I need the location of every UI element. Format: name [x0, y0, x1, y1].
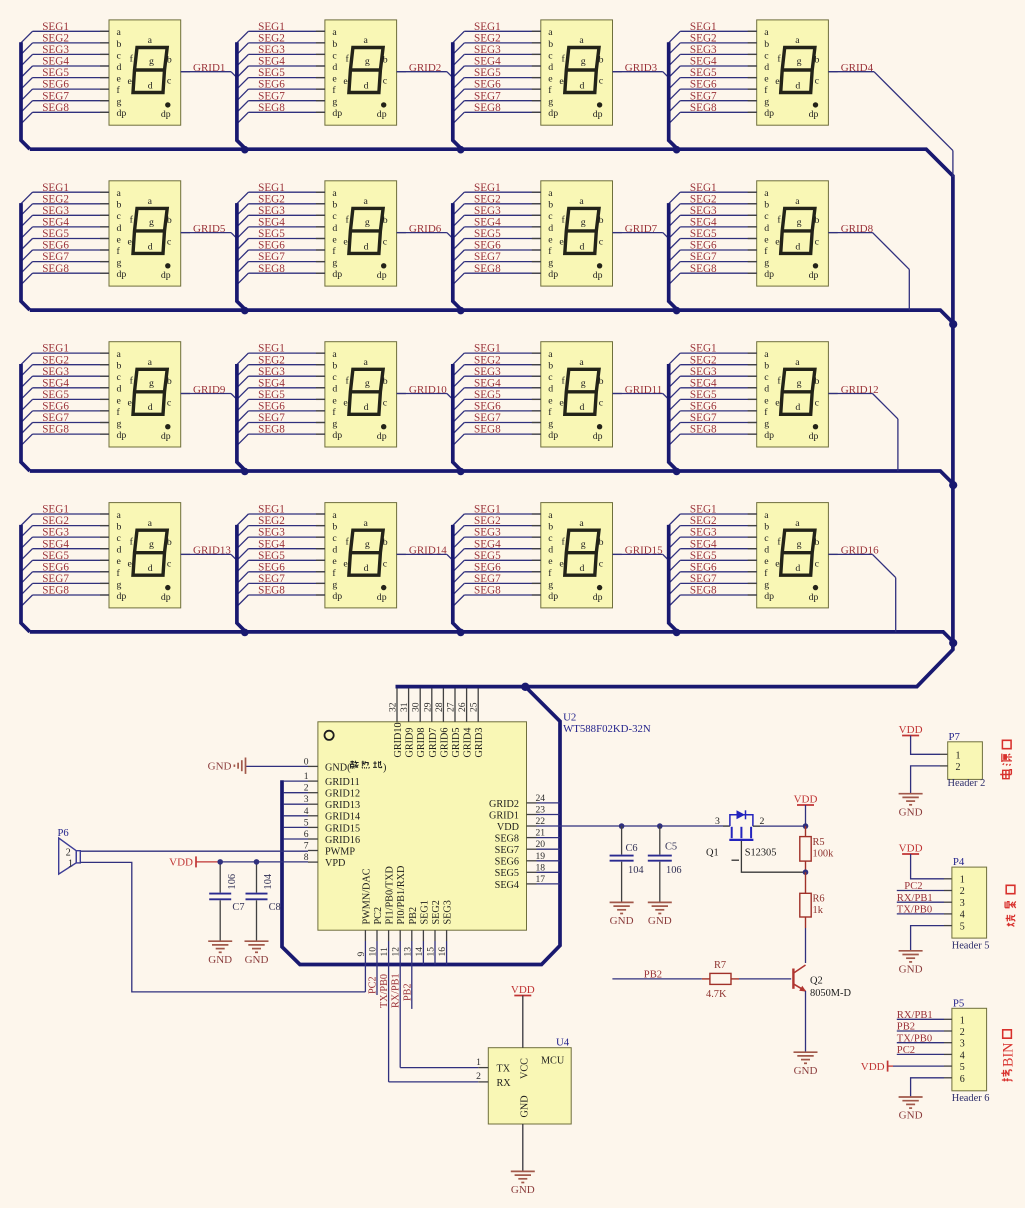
bus row3 horizontal	[30, 471, 953, 484]
svg-text:Q2: Q2	[810, 975, 823, 986]
port label dianyuankou (power port)	[1000, 740, 1012, 778]
wire Q1 pin2 to R5 top / VDD	[753, 825, 806, 827]
svg-text:GND(: GND(	[325, 762, 351, 773]
junction dot at C7	[217, 859, 223, 865]
svg-text:11: 11	[379, 947, 390, 956]
svg-text:GRID7: GRID7	[428, 728, 439, 758]
ground at C8	[245, 941, 269, 966]
port label shaolukou (programming port)	[1005, 885, 1016, 926]
7-seg display unit 11 (GRID11)	[453, 342, 622, 471]
7-seg display unit 2 (GRID2)	[237, 20, 406, 149]
svg-text:31: 31	[399, 702, 410, 712]
svg-text:GRID9: GRID9	[405, 728, 416, 758]
svg-text:GRID12: GRID12	[325, 789, 360, 800]
MCU U4 body	[488, 1048, 571, 1124]
wire U2 pin11 TXD to U4 RX	[389, 1081, 479, 1083]
wire GRID7	[613, 233, 670, 240]
U2 bottom pin 16 (SEG3)	[446, 930, 448, 964]
svg-text:SEG5: SEG5	[495, 868, 519, 879]
svg-text:P4: P4	[953, 856, 965, 868]
header P7 body	[948, 742, 983, 780]
7-seg display unit 16 (GRID16)	[669, 503, 838, 632]
U2 bottom pin 9 (PWMN/DAC)	[364, 930, 366, 992]
speaker P6	[58, 828, 81, 874]
svg-text:1: 1	[956, 750, 961, 761]
svg-text:GRID3: GRID3	[625, 62, 658, 74]
P5 pin numbers	[960, 1015, 965, 1085]
svg-text:28: 28	[434, 702, 445, 712]
wire GRID9	[181, 394, 238, 401]
P7 pin numbers	[956, 750, 961, 773]
svg-text:R7: R7	[714, 960, 726, 971]
svg-text:106: 106	[227, 874, 238, 890]
svg-text:GRID16: GRID16	[325, 835, 360, 846]
wire RX/PB1 to P5 pin1	[897, 1018, 952, 1020]
svg-text:PI0/PB1/RXD: PI0/PB1/RXD	[396, 866, 407, 925]
svg-text:5: 5	[960, 921, 965, 932]
svg-text:C7: C7	[232, 902, 244, 913]
svg-text:C6: C6	[626, 843, 638, 854]
U2 left pin 5 (GRID15)	[284, 826, 318, 828]
U2 left pin 4 (GRID14)	[284, 815, 318, 817]
wire GRID16	[828, 554, 895, 632]
wire GRID11	[613, 394, 670, 401]
U2 top pin 25 (GRID3)	[477, 688, 479, 722]
junction dot at C5	[657, 823, 663, 829]
svg-text:27: 27	[446, 702, 457, 712]
svg-text:23: 23	[536, 805, 546, 816]
wire VDD net from U2 pin22 to Q1 pin3	[723, 825, 730, 827]
port label kao BIN kou (copy BIN port)	[1001, 1030, 1017, 1082]
svg-text:0: 0	[304, 756, 309, 767]
svg-text:8: 8	[304, 852, 309, 863]
svg-text:17: 17	[536, 874, 546, 885]
svg-text:3: 3	[715, 816, 720, 827]
bus junction dots rows/columns	[241, 146, 957, 647]
7-seg display unit 14 (GRID14)	[237, 503, 406, 632]
svg-text:GRID4: GRID4	[463, 728, 474, 758]
svg-text:29: 29	[422, 702, 433, 712]
U2 left pin 3 (GRID13)	[284, 803, 318, 805]
svg-text:GRID5: GRID5	[193, 223, 226, 235]
transistor Q1 S12305 P-MOSFET	[706, 810, 776, 860]
svg-text:SEG8: SEG8	[495, 834, 519, 845]
svg-text:2: 2	[66, 847, 71, 858]
resistor R5 100k	[800, 826, 834, 872]
U2 bottom pin 14 (SEG1)	[422, 930, 424, 964]
svg-text:GRID12: GRID12	[841, 384, 879, 396]
svg-text:4.7K: 4.7K	[706, 989, 727, 1000]
svg-text:PI1/PB0/TXD: PI1/PB0/TXD	[385, 866, 396, 924]
svg-text:104: 104	[628, 865, 644, 876]
ground at P5	[899, 1097, 923, 1122]
svg-text:GND: GND	[208, 761, 232, 773]
junction dot at C6	[619, 823, 625, 829]
wire R7 to Q2 base	[739, 978, 791, 980]
svg-text:24: 24	[536, 793, 546, 804]
U2 right pin 23 (GRID1)	[527, 814, 561, 816]
svg-text:P7: P7	[949, 731, 961, 743]
svg-text:VDD: VDD	[497, 822, 519, 833]
U2 bottom pin 15 (SEG2)	[434, 930, 436, 964]
svg-text:Header 6: Header 6	[952, 1093, 990, 1104]
header P4 body	[952, 867, 987, 938]
svg-text:WT588F02KD-32N: WT588F02KD-32N	[563, 723, 651, 735]
U2 bottom pin 13 (PB2)	[411, 930, 413, 1009]
svg-text:3: 3	[960, 1039, 965, 1050]
7-seg display unit 12 (GRID12)	[669, 342, 838, 471]
wire P5 pin6 to GND	[911, 1078, 952, 1097]
U2 top pin 30 (GRID8)	[419, 688, 421, 722]
capacitor C5	[648, 826, 682, 902]
bus row2 horizontal	[30, 310, 953, 323]
svg-text:GRID2: GRID2	[409, 62, 441, 74]
svg-text:MCU: MCU	[541, 1056, 565, 1067]
svg-text:4: 4	[304, 806, 309, 817]
svg-text:8050M-D: 8050M-D	[810, 988, 851, 999]
svg-text:SEG3: SEG3	[443, 900, 454, 924]
wire VDD to U4 VCC	[522, 996, 524, 1048]
wire GRID3	[613, 72, 670, 79]
svg-text:Q1: Q1	[706, 847, 719, 858]
svg-text:12: 12	[391, 947, 402, 957]
wire VDD to VPD	[196, 861, 220, 863]
U2 bottom pin 11 (PI1/PB0/TXD)	[388, 930, 390, 1082]
svg-text:RX/PB1: RX/PB1	[391, 973, 402, 1008]
svg-text:GRID13: GRID13	[193, 545, 231, 557]
power VDD at P5 pin5	[861, 1061, 888, 1073]
wire GRID12	[828, 394, 898, 472]
svg-text:GRID14: GRID14	[409, 545, 447, 557]
wire GRID1	[181, 72, 238, 79]
svg-text:PC2: PC2	[373, 907, 384, 925]
U4 pin names	[497, 1056, 565, 1118]
svg-text:R5: R5	[813, 837, 825, 848]
U2 top pin 32 (GRID10)	[396, 688, 398, 722]
wire GRID8	[828, 233, 909, 311]
power VDD above R5	[794, 793, 818, 805]
svg-text:18: 18	[536, 862, 546, 873]
capacitor C7	[209, 862, 244, 941]
U2 left pin 0 (GND(<>))	[246, 765, 318, 767]
wire PB2 to R7	[612, 978, 702, 980]
svg-text:26: 26	[457, 702, 468, 712]
svg-text:U2: U2	[563, 711, 576, 723]
svg-text:3: 3	[304, 794, 309, 805]
U2 bottom pin 10 (PC2)	[376, 930, 378, 995]
resistor R6 1k	[800, 872, 825, 928]
U2 top pin 26 (GRID4)	[466, 688, 468, 722]
wire VDD to P4 pin1	[911, 854, 952, 879]
U2 pin-1 indicator circle	[325, 731, 334, 740]
svg-text:100k: 100k	[813, 849, 835, 860]
svg-text:5: 5	[304, 817, 309, 828]
wire GRID14	[397, 554, 454, 561]
bus row4 horizontal	[30, 632, 953, 642]
svg-text:32: 32	[388, 702, 399, 712]
svg-text:106: 106	[666, 865, 682, 876]
ground symbol (sideways) at U2 pin 0	[208, 758, 246, 774]
U4 pin 1 stub	[478, 1067, 488, 1069]
svg-text:TX: TX	[497, 1064, 511, 1075]
svg-text:GRID1: GRID1	[489, 810, 519, 821]
svg-text:SEG7: SEG7	[495, 845, 519, 856]
svg-text:9: 9	[356, 952, 367, 957]
svg-text:R6: R6	[813, 894, 825, 905]
U2 right pin 19 (SEG6)	[527, 860, 561, 862]
U2 left pin 8 (VPD)	[220, 861, 318, 863]
7-seg display unit 3 (GRID3)	[453, 20, 622, 149]
svg-text:GRID6: GRID6	[409, 223, 442, 235]
svg-text:Header 2: Header 2	[948, 778, 986, 789]
U2 top pin 28 (GRID6)	[442, 688, 444, 722]
svg-text:22: 22	[536, 816, 546, 827]
wire GRID15	[613, 554, 670, 561]
svg-text:VPD: VPD	[325, 858, 345, 869]
svg-text:20: 20	[536, 839, 546, 850]
U2 right pin 24 (GRID2)	[527, 802, 561, 804]
svg-text:PC2: PC2	[368, 976, 379, 994]
svg-text:19: 19	[536, 851, 546, 862]
U2 right pin 20 (SEG7)	[527, 848, 561, 850]
junction dot at C8	[254, 859, 260, 865]
svg-text:5: 5	[960, 1062, 965, 1073]
wire GRID10	[397, 394, 454, 401]
svg-text:2: 2	[960, 886, 965, 897]
svg-text:GRID11: GRID11	[625, 384, 662, 396]
svg-text:GRID4: GRID4	[841, 62, 874, 74]
U2 top pin 29 (GRID7)	[431, 688, 433, 722]
bus junction dot at U2 top	[521, 683, 529, 691]
power VDD at P7	[899, 724, 923, 736]
power VDD above U4	[511, 984, 535, 996]
svg-text:3: 3	[960, 898, 965, 909]
ground at C5	[648, 902, 672, 927]
wire TX/PB0 to P5 pin3	[897, 1042, 952, 1044]
ground at Q2	[794, 1052, 818, 1077]
svg-text:16: 16	[437, 947, 448, 957]
svg-text:VCC: VCC	[520, 1058, 531, 1079]
7-seg display unit 7 (GRID7)	[453, 181, 622, 310]
U2 left pin 6 (GRID16)	[284, 838, 318, 840]
svg-text:2: 2	[304, 783, 309, 794]
ground at C6	[610, 902, 634, 927]
svg-text:104: 104	[263, 873, 274, 889]
svg-text:GRID10: GRID10	[393, 722, 404, 757]
ground at P4	[899, 951, 923, 976]
7-seg display unit 5 (GRID5)	[21, 181, 190, 310]
svg-text:2: 2	[960, 1027, 965, 1038]
svg-text:GRID5: GRID5	[451, 728, 462, 758]
svg-text:7: 7	[304, 841, 309, 852]
svg-text:GND: GND	[520, 1095, 531, 1117]
svg-text:C8: C8	[269, 902, 281, 913]
svg-text:Header 5: Header 5	[952, 941, 990, 952]
U2 left pin 7 (PWMP)	[80, 850, 318, 853]
svg-text:C5: C5	[665, 841, 677, 852]
7-seg display unit 9 (GRID9)	[21, 342, 190, 471]
svg-text:GRID11: GRID11	[325, 777, 360, 788]
svg-text:GRID10: GRID10	[409, 384, 447, 396]
svg-text:GRID9: GRID9	[193, 384, 226, 396]
svg-text:U4: U4	[556, 1037, 570, 1049]
ground at C7	[208, 941, 232, 966]
svg-text:GRID14: GRID14	[325, 812, 360, 823]
transistor Q2 8050M-D NPN	[793, 965, 851, 999]
bus around U2: top horizontal with branch ring (left/bottom/right)	[282, 687, 560, 965]
wire PC2 to P5 pin4	[897, 1053, 952, 1055]
svg-text:GRID13: GRID13	[325, 800, 360, 811]
svg-text:SEG6: SEG6	[495, 857, 519, 868]
wire PC2 to P4 pin2	[897, 890, 952, 892]
wire P6 pin1 to U2 pin9 PWMN	[80, 862, 365, 992]
header P5 body	[952, 1008, 987, 1091]
U2 top pin 31 (GRID9)	[408, 688, 410, 722]
svg-text:GRID8: GRID8	[416, 728, 427, 758]
7-seg display unit 8 (GRID8)	[669, 181, 838, 310]
wire Q2 emitter to GND	[805, 991, 807, 1052]
P4 pin numbers	[960, 875, 965, 933]
wire GRID4	[828, 72, 953, 177]
capacitor C6	[610, 826, 645, 902]
svg-text:GRID15: GRID15	[625, 545, 663, 557]
svg-text:25: 25	[469, 702, 480, 712]
U2 right pin 21 (SEG8)	[527, 837, 561, 839]
wire R6 to Q2 collector	[805, 928, 807, 963]
wire VDD down to junction	[805, 805, 807, 826]
svg-text:1: 1	[476, 1057, 481, 1068]
wire P7 pin2 to GND	[911, 766, 948, 793]
svg-text:P6: P6	[58, 828, 69, 839]
svg-text:GRID3: GRID3	[474, 728, 485, 758]
7-seg display unit 1 (GRID1)	[21, 20, 190, 149]
U2 right pin 18 (SEG5)	[527, 871, 561, 873]
svg-text:13: 13	[402, 947, 413, 957]
wire VDD to P5 pin5	[888, 1065, 952, 1067]
svg-text:1: 1	[960, 1015, 965, 1026]
svg-text:GRID6: GRID6	[439, 728, 450, 758]
wire GRID13	[181, 554, 238, 561]
svg-text:P5: P5	[953, 997, 964, 1009]
svg-text:GRID16: GRID16	[841, 545, 879, 557]
svg-text:GRID7: GRID7	[625, 223, 658, 235]
svg-text:4: 4	[960, 1050, 965, 1061]
wire U4 GND down	[522, 1124, 524, 1171]
capacitor C8	[246, 862, 281, 941]
wire GRID2	[397, 72, 454, 79]
7-seg display unit 4 (GRID4)	[669, 20, 838, 149]
power VDD (left, at VPD)	[169, 856, 196, 868]
wire Q1 gate to R5/R6 junction	[741, 841, 805, 872]
svg-text:SEG1: SEG1	[419, 900, 430, 924]
svg-text:RX: RX	[497, 1078, 512, 1089]
U2 bottom pin 12 (PI0/PB1/RXD)	[399, 930, 401, 1067]
svg-text:2: 2	[476, 1071, 481, 1082]
svg-text:1: 1	[68, 859, 73, 870]
svg-text:GRID2: GRID2	[489, 799, 519, 810]
ground below U4	[511, 1171, 535, 1196]
7-seg display unit 15 (GRID15)	[453, 503, 622, 632]
svg-text:14: 14	[414, 947, 425, 957]
wire PB2 to P5 pin2	[897, 1030, 952, 1032]
svg-text:PB2: PB2	[402, 983, 413, 1001]
U2 right pin 22 (VDD)	[527, 825, 730, 827]
svg-text:1: 1	[304, 771, 309, 782]
resistor R7 4.7K	[702, 960, 739, 1000]
wire U2 pin12 RXD to U4 TX	[400, 1067, 478, 1069]
svg-text:GRID15: GRID15	[325, 823, 360, 834]
svg-text:PWMP: PWMP	[325, 846, 355, 857]
svg-text:TX/PB0: TX/PB0	[379, 974, 390, 1008]
wire GRID6	[397, 233, 454, 240]
svg-text:4: 4	[960, 910, 965, 921]
bus row1 horizontal + right riser down to MCU bus	[30, 149, 953, 686]
svg-text:2: 2	[956, 762, 961, 773]
junction dot VDD/R5	[803, 823, 809, 829]
power VDD at P4	[899, 842, 923, 854]
wire TX/PB0 to P4 pin4	[897, 913, 952, 915]
svg-text:10: 10	[368, 947, 379, 957]
svg-text:1: 1	[960, 875, 965, 886]
svg-text:SEG2: SEG2	[431, 900, 442, 924]
U2 top pin 27 (GRID5)	[454, 688, 456, 722]
7-seg display unit 13 (GRID13)	[21, 503, 190, 632]
ground at P7	[899, 794, 923, 819]
svg-text:GRID1: GRID1	[193, 62, 225, 74]
svg-text:BIN: BIN	[1001, 1043, 1017, 1067]
svg-text:PB2: PB2	[408, 907, 419, 925]
svg-text:1k: 1k	[813, 905, 824, 916]
wire GRID5	[181, 233, 238, 240]
junction dot R5/R6/gate	[803, 869, 809, 875]
U2 right pin 17 (SEG4)	[527, 883, 561, 885]
svg-text:30: 30	[411, 702, 422, 712]
U2 left pin 2 (GRID12)	[284, 792, 318, 794]
MCU U2 body	[318, 722, 527, 930]
svg-text:): )	[383, 762, 386, 773]
svg-text:GRID8: GRID8	[841, 223, 874, 235]
wire RX/PB1 to P4 pin3	[897, 901, 952, 903]
wire VDD to P7 pin1	[911, 736, 948, 755]
svg-text:S12305: S12305	[745, 848, 777, 859]
svg-text:2: 2	[760, 816, 765, 827]
svg-text:15: 15	[426, 947, 437, 957]
wire P4 pin5 to GND	[911, 926, 952, 951]
7-seg display unit 6 (GRID6)	[237, 181, 406, 310]
7-seg display unit 10 (GRID10)	[237, 342, 406, 471]
svg-text:SEG4: SEG4	[495, 880, 519, 891]
U2 left pin 1 (GRID11)	[284, 780, 318, 782]
svg-text:6: 6	[304, 829, 309, 840]
U4 pin 2 stub	[478, 1081, 488, 1083]
svg-text:6: 6	[960, 1074, 965, 1085]
svg-text:PWMN/DAC: PWMN/DAC	[361, 868, 372, 924]
svg-text:21: 21	[536, 828, 546, 839]
